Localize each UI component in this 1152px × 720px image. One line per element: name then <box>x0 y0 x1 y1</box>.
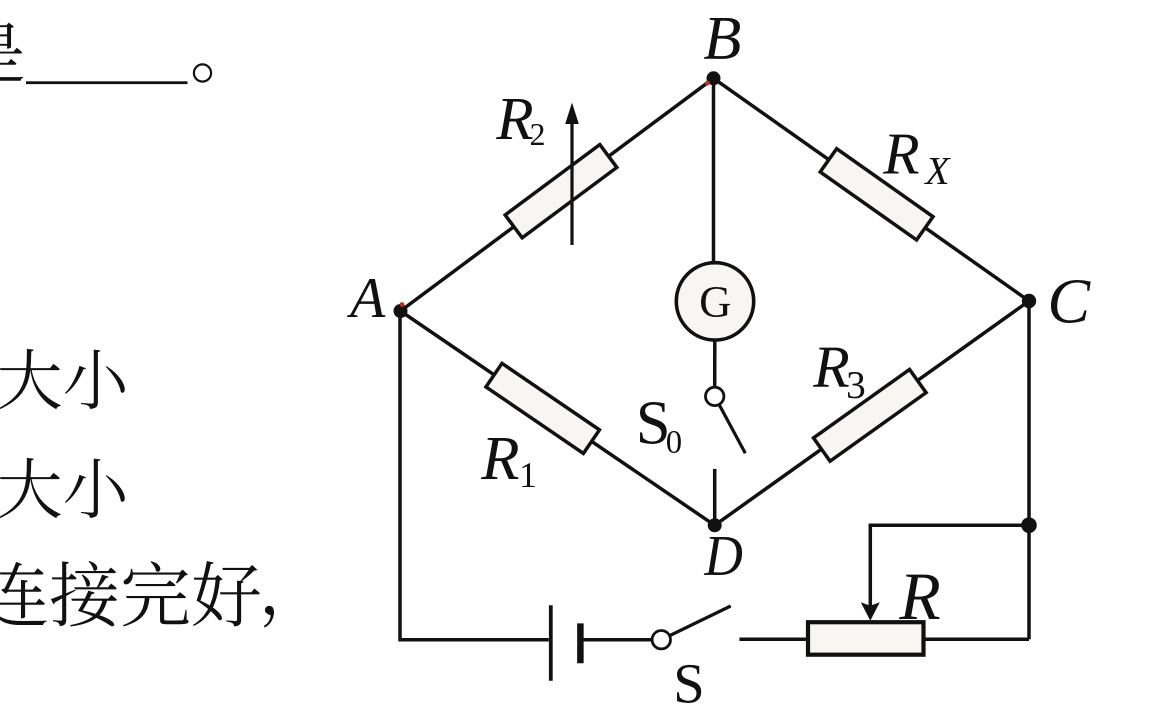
switch S0 <box>706 387 746 453</box>
label R3 <box>813 348 864 399</box>
resistor RX <box>820 149 933 240</box>
text line "大小" (first) <box>0 349 125 409</box>
wire B-C <box>714 78 1030 301</box>
text line "大小" (second) <box>0 458 125 518</box>
resistor R3 <box>813 369 926 461</box>
wire C down right leg <box>1027 301 1031 639</box>
rheostat R <box>808 622 924 655</box>
wire galvanometer to switch S0 <box>713 340 717 387</box>
label B <box>704 18 740 59</box>
galvanometer G <box>676 263 753 340</box>
battery <box>551 605 581 680</box>
rheostat wiper arrowhead <box>861 602 880 621</box>
wire A-D <box>401 311 715 525</box>
wire A to battery (left leg) <box>400 311 549 640</box>
node C <box>1022 294 1036 308</box>
label D <box>704 537 742 575</box>
switch S <box>652 606 731 649</box>
wire A-B <box>401 78 714 311</box>
label S0 <box>640 402 681 453</box>
label S <box>677 665 701 703</box>
node A <box>394 302 408 318</box>
wire S0 to D <box>713 469 717 525</box>
label A <box>347 279 386 317</box>
wire battery to switch S <box>580 638 651 642</box>
node D <box>708 518 722 532</box>
label RX <box>883 135 951 184</box>
label C <box>1051 280 1091 323</box>
wire junction to rheostat wiper <box>870 525 1029 606</box>
arrow through R2 (adjustable) <box>565 103 579 246</box>
resistor R2 <box>505 145 617 238</box>
label R2 <box>496 99 544 145</box>
resistor R1 <box>486 363 600 453</box>
wire S to rheostat R <box>739 637 808 641</box>
node B <box>705 71 720 85</box>
label R <box>899 575 940 619</box>
wire D-C <box>715 301 1029 525</box>
wire B to galvanometer <box>712 78 716 263</box>
text line "连接完好，" <box>0 561 274 628</box>
junction node on right leg <box>1021 517 1037 533</box>
label R1 <box>481 438 535 487</box>
wire rheostat to right leg <box>923 637 1029 641</box>
